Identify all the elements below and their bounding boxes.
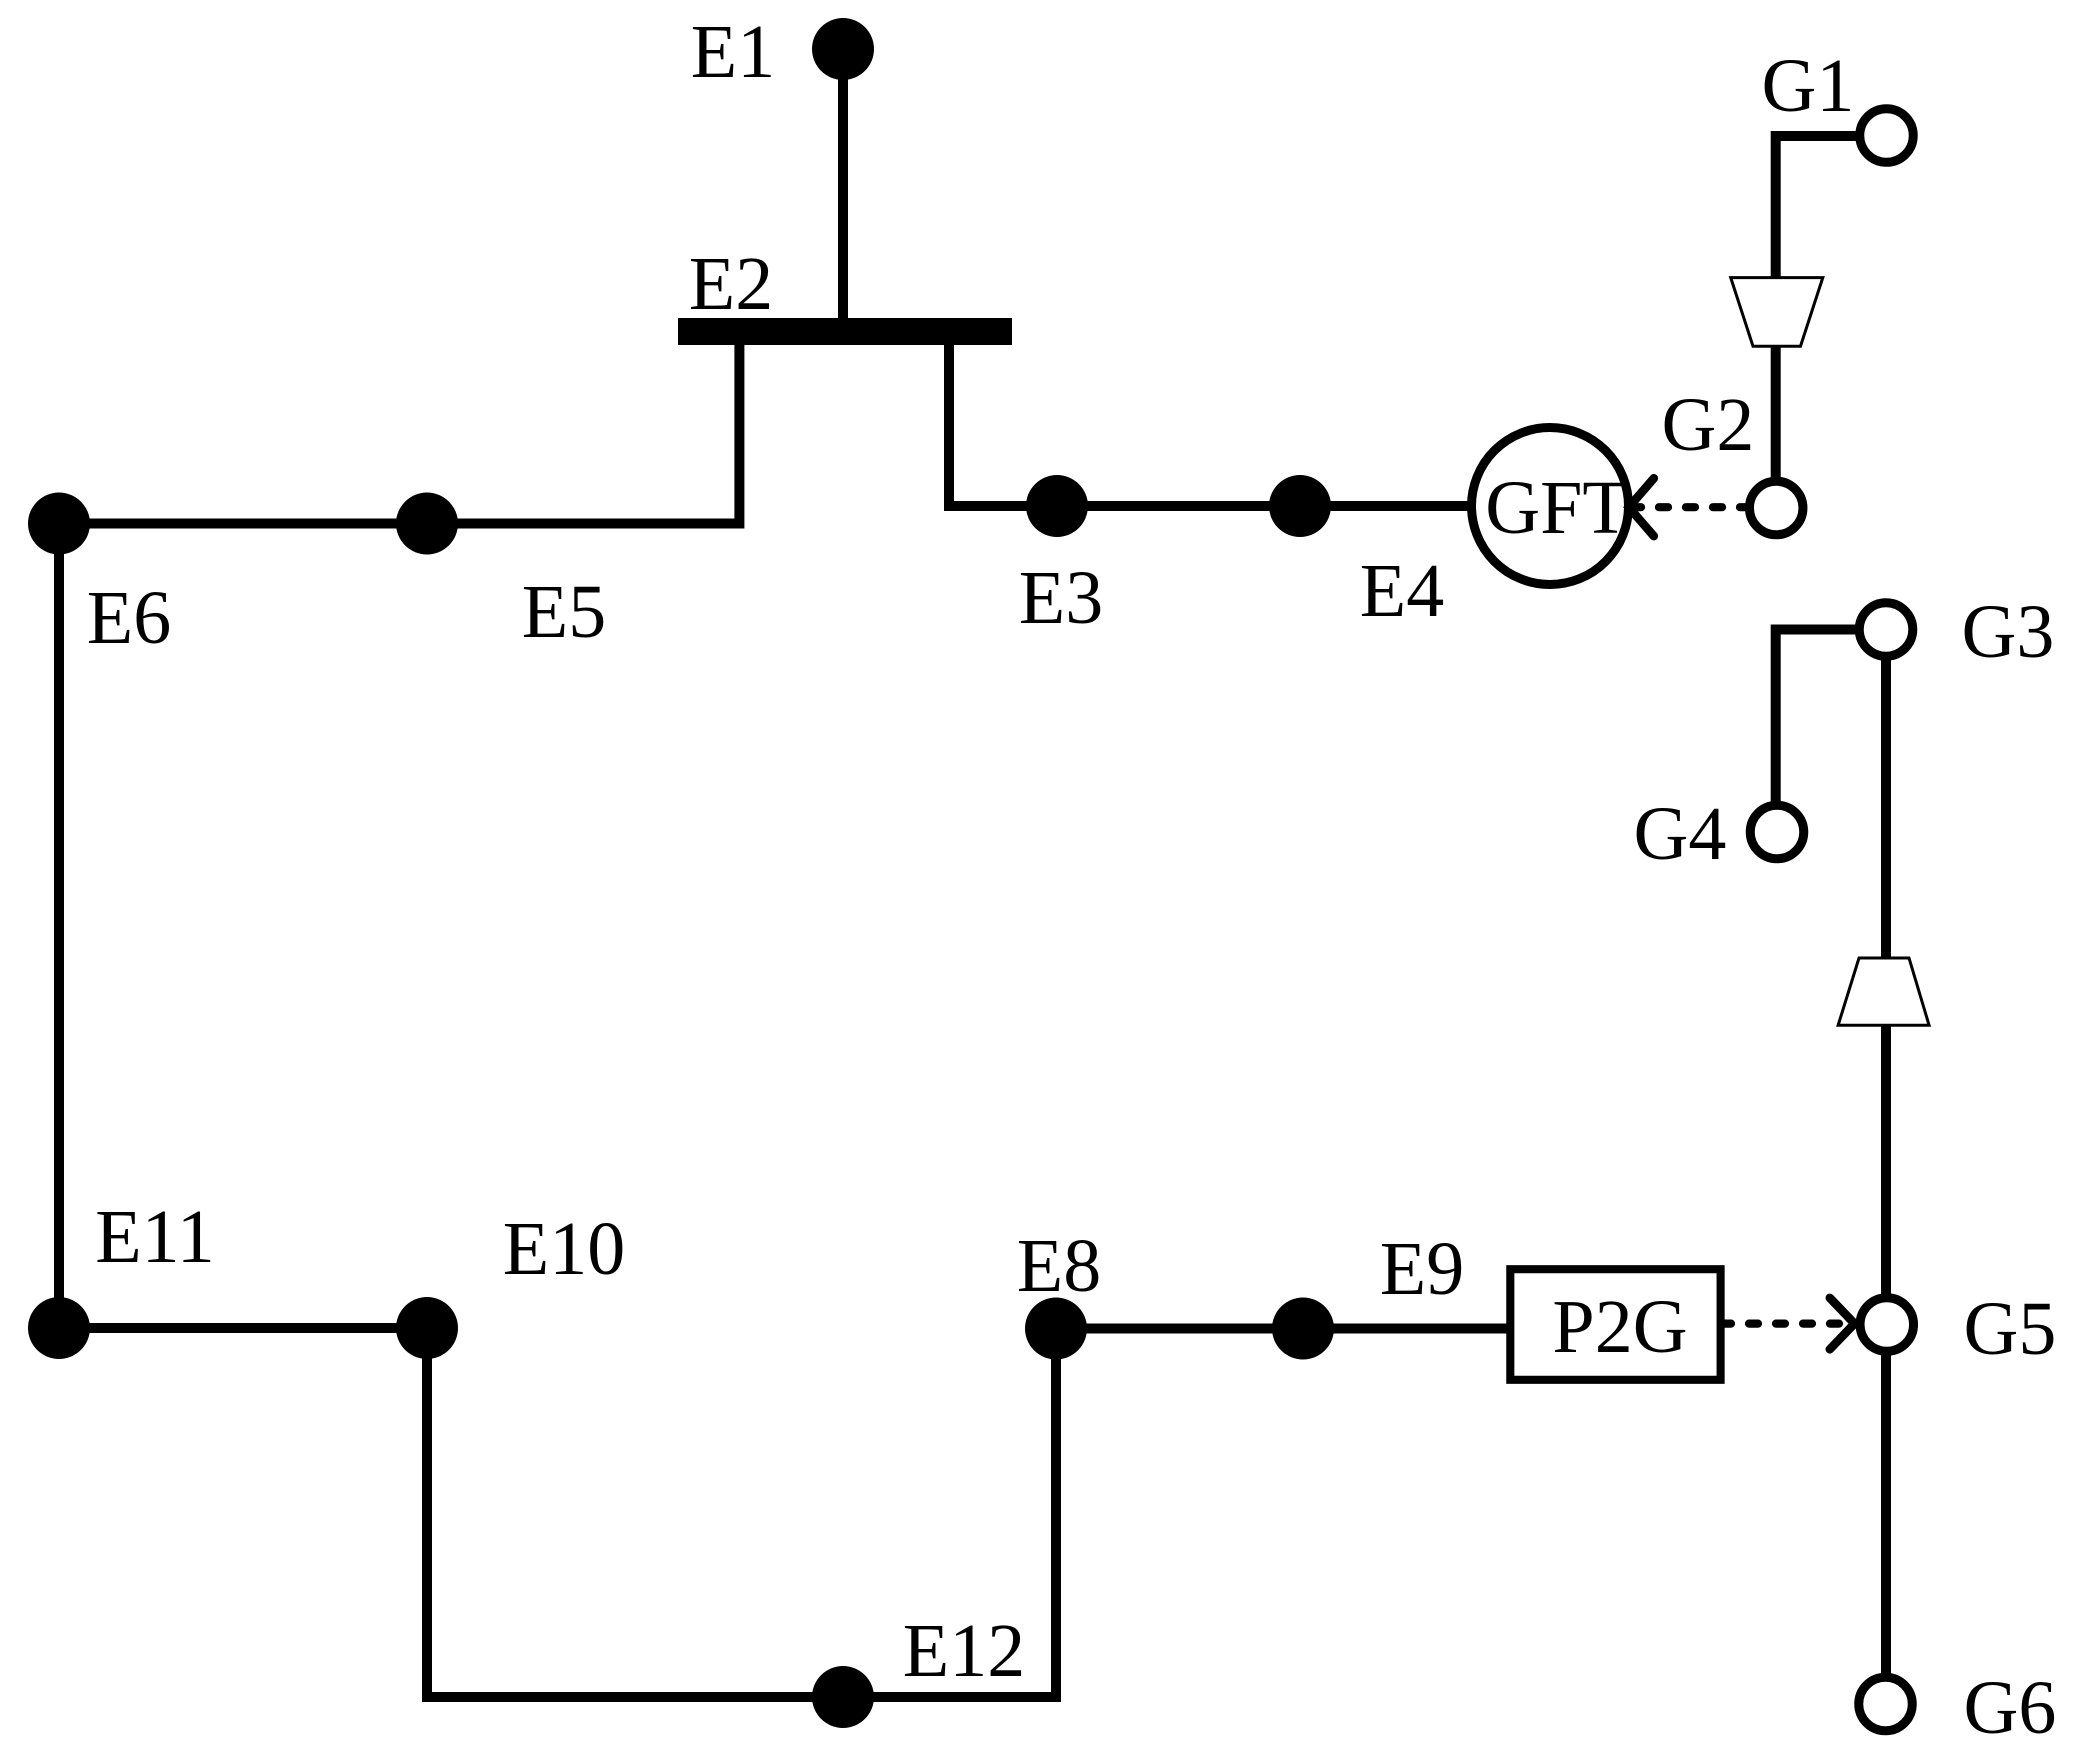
pipe compressor to G1 corner [1776,136,1860,278]
svg-text:GFT: GFT [1485,466,1629,550]
pipe G2 up to compressor [1771,346,1781,480]
node G2 [1749,481,1803,535]
wire E6 to E11 vertical [54,524,64,1329]
node E5 [396,493,458,555]
node E3 [1026,475,1088,537]
wire E11-E10-E12-E8 [59,1328,1508,1697]
compressor G3-G5 [1838,958,1929,1025]
svg-text:G3: G3 [1962,590,2055,674]
pipe G3 to G4 corner [1776,630,1860,804]
wire bus E2 left drop to line E6-E5 [64,340,739,524]
wire E1 to bus E2 [838,49,848,318]
svg-text:E10: E10 [503,1207,625,1291]
svg-text:E12: E12 [903,1609,1025,1693]
svg-text:G6: G6 [1964,1666,2057,1750]
node E4 [1269,475,1331,537]
svg-text:E3: E3 [1019,556,1103,640]
dashed link P2G to G5 [1722,1319,1846,1327]
node E1 [812,18,874,80]
bus E2 (busbar) [678,318,1012,345]
pipe compressor 2 to G5 [1881,1025,1891,1295]
svg-text:G5: G5 [1964,1287,2057,1371]
node G4 [1750,805,1804,859]
svg-text:E4: E4 [1360,549,1444,633]
P2G box [1510,1269,1720,1380]
wire bus E2 right drop to line E3-E4 [949,340,1471,506]
dashed link G2 to GFT [1632,503,1746,511]
node E11 [28,1297,90,1359]
pipe G3 down to compressor 2 [1881,655,1891,958]
svg-text:E1: E1 [691,10,775,94]
svg-text:G4: G4 [1634,792,1727,876]
node E9 [1272,1298,1334,1360]
svg-text:E6: E6 [87,576,171,660]
node G3 [1859,603,1913,657]
pipe G5 to G6 [1881,1353,1891,1675]
svg-text:E9: E9 [1380,1227,1464,1311]
svg-text:G1: G1 [1762,44,1855,128]
node G5 [1860,1298,1914,1352]
svg-text:G2: G2 [1662,383,1755,467]
arrowhead into G5 [1830,1298,1855,1349]
svg-text:E2: E2 [689,242,773,326]
svg-text:E5: E5 [522,570,606,654]
svg-text:P2G: P2G [1552,1285,1687,1369]
turbine GFT circle [1472,428,1629,585]
compressor G2-G1 [1731,278,1823,347]
node E6 [28,493,90,555]
arrowhead into GFT [1629,478,1654,536]
node E12 [812,1666,874,1728]
svg-text:E11: E11 [95,1195,215,1279]
node G6 [1859,1677,1913,1731]
svg-text:E8: E8 [1017,1224,1101,1308]
node G1 [1860,109,1914,163]
node E8 [1025,1298,1087,1360]
node E10 [396,1297,458,1359]
